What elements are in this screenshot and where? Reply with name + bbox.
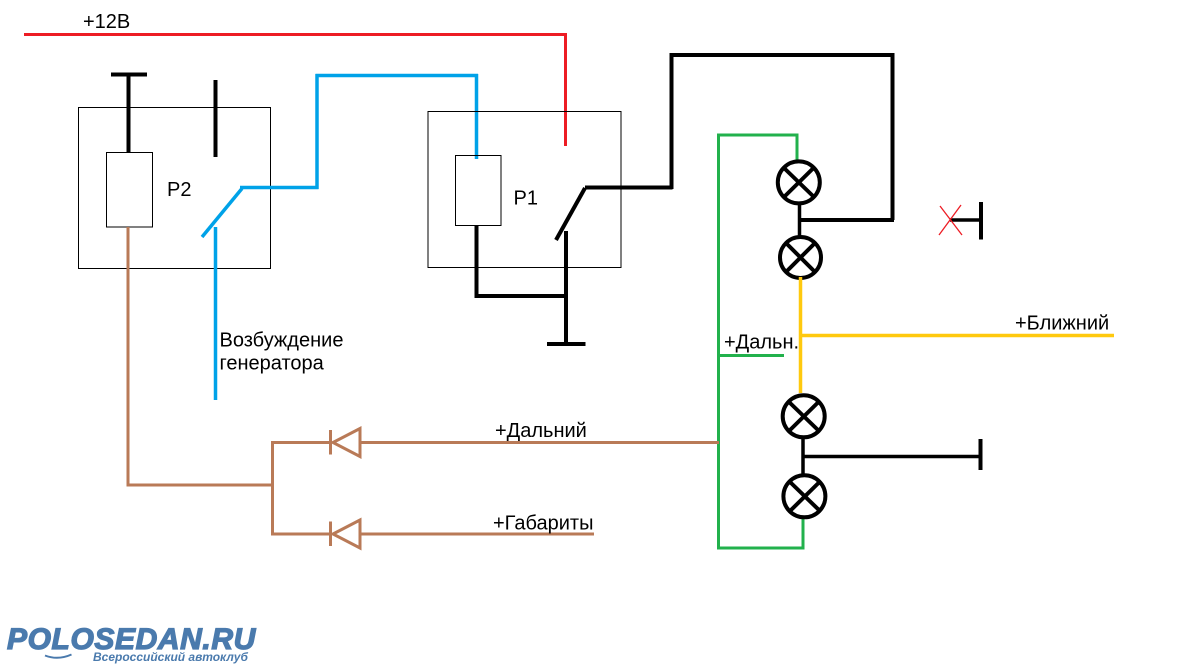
logo swoosh <box>45 655 72 658</box>
crossed-out terminal upper right: terminal bar <box>979 202 983 240</box>
ground symbol <box>547 342 586 346</box>
terminal 85 of P2 (T-bar) <box>111 75 147 153</box>
wire blue horizontal top to P1 <box>316 74 479 78</box>
svg-text:P2: P2 <box>167 179 191 201</box>
diode VD2 <box>331 520 361 548</box>
switch common stub of P1 <box>564 231 568 345</box>
wire brown from P2 coil down <box>127 227 275 487</box>
wire blue drop to P1 coil <box>475 74 479 159</box>
wire blue excitation stub down from P2 <box>214 227 218 400</box>
svg-text:P1: P1 <box>514 188 538 210</box>
switch blade of P1 <box>556 188 585 240</box>
svg-text:Всероссийский автоклуб: Всероссийский автоклуб <box>93 650 249 664</box>
crossed-out terminal upper right: black lead <box>950 218 981 222</box>
terminal 86 stub of P2 <box>214 80 218 157</box>
svg-text:+12В: +12В <box>83 11 130 33</box>
svg-text:+Габариты: +Габариты <box>493 513 593 535</box>
wire green stub +Дальн. <box>717 354 784 357</box>
lamp L4 <box>783 475 825 517</box>
wire brown top branch left segment <box>271 441 330 444</box>
wire brown bottom branch right segment +Габариты <box>360 533 594 536</box>
wire green rise to lamp L4 <box>802 518 805 549</box>
wire brown junction vertical <box>271 441 274 536</box>
switch blade of P2 (blue) <box>202 189 242 238</box>
svg-text:+Дальн.: +Дальн. <box>724 332 799 354</box>
wire black to lower right terminal <box>804 455 980 459</box>
wire brown bottom branch left segment <box>271 533 330 536</box>
relay P1 coil <box>456 156 502 226</box>
lamp L2 <box>780 237 821 278</box>
terminal bar lower right <box>979 439 983 470</box>
wire lamp L3 to L4 <box>801 436 805 477</box>
svg-text:+Ближний: +Ближний <box>1015 313 1109 335</box>
svg-text:+Дальний: +Дальний <box>495 420 587 442</box>
svg-text:генератора: генератора <box>220 353 325 375</box>
wire yellow branch +Ближний <box>801 334 1114 338</box>
lamp L3 <box>783 395 825 437</box>
wire green bottom horizontal <box>717 547 805 550</box>
relay P2 coil <box>107 153 153 228</box>
wire brown top branch right segment +Дальний <box>360 441 719 444</box>
relay P2 box <box>79 108 271 269</box>
wire green main vertical <box>717 134 720 550</box>
diode VD1 <box>331 429 361 457</box>
wire black from P1 switch to lamps <box>585 53 894 220</box>
wire green top horizontal <box>717 134 799 137</box>
wire blue vertical up <box>315 74 319 189</box>
lamp L1 <box>778 161 820 203</box>
wire green drop to lamp L1 <box>796 134 799 161</box>
wire lamp L1 to L2 <box>798 203 802 238</box>
svg-text:Возбуждение: Возбуждение <box>220 330 344 352</box>
wire +12V red horizontal <box>24 33 567 36</box>
relay P1 box <box>428 112 621 268</box>
wire +12V red vertical drop into relay P1 <box>564 33 567 146</box>
wire P1 coil to ground <box>475 225 569 296</box>
wire yellow lamp L2 to lamp L3 <box>799 277 803 393</box>
crossed-out terminal upper right: red X <box>939 205 962 235</box>
wire blue from P2 switch horizontal <box>240 186 319 190</box>
